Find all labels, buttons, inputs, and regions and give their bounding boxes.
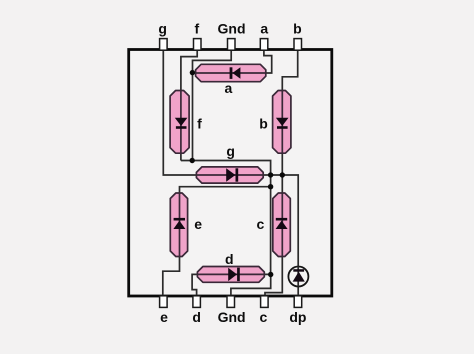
- svg-text:dp: dp: [289, 309, 306, 325]
- svg-text:g: g: [158, 21, 167, 37]
- svg-text:d: d: [192, 309, 201, 325]
- svg-text:b: b: [259, 115, 268, 131]
- svg-text:d: d: [225, 251, 234, 267]
- svg-text:b: b: [293, 21, 302, 37]
- svg-text:a: a: [225, 80, 233, 96]
- svg-text:c: c: [260, 309, 268, 325]
- svg-text:f: f: [194, 21, 199, 37]
- svg-text:Gnd: Gnd: [218, 21, 246, 37]
- svg-text:c: c: [257, 216, 265, 232]
- svg-text:Gnd: Gnd: [218, 309, 246, 325]
- svg-text:g: g: [226, 143, 235, 159]
- svg-text:e: e: [160, 309, 168, 325]
- svg-text:a: a: [260, 21, 268, 37]
- svg-text:f: f: [197, 115, 202, 131]
- svg-text:e: e: [194, 216, 202, 232]
